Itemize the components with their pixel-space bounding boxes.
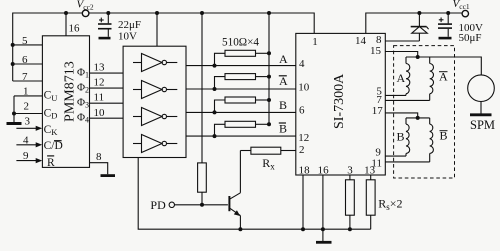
- label + C2: [439, 18, 444, 23]
- wire pin9 R input arrow: [16, 160, 37, 162]
- svg-text:22μF: 22μF: [118, 19, 141, 31]
- wire phi1 pin13: [90, 72, 124, 74]
- wire pin8 to zener: [385, 40, 419, 42]
- terminal PD: [169, 202, 174, 207]
- wire pin4 C/D input arrow: [16, 144, 37, 146]
- IC U2 buffer array box: [123, 46, 186, 157]
- svg-text:1: 1: [312, 36, 318, 48]
- svg-text:11: 11: [94, 92, 105, 104]
- wire bottom emitter rail: [138, 158, 371, 230]
- svg-text:SPM: SPM: [470, 118, 495, 132]
- svg-text:PMM8713: PMM8713: [62, 61, 77, 122]
- wire V1 rail to PD pull-up resistor: [201, 13, 203, 163]
- wire phase A line: [186, 65, 296, 67]
- wire pin16 down to ground: [322, 175, 324, 241]
- svg-text:3: 3: [25, 115, 31, 127]
- node dot pin5 bus: [11, 43, 15, 47]
- svg-text:4: 4: [299, 58, 305, 70]
- svg-text:18: 18: [299, 165, 311, 177]
- svg-text:6: 6: [22, 54, 28, 66]
- svg-text:9: 9: [23, 150, 29, 162]
- svg-text:16: 16: [318, 165, 330, 177]
- resistor R 510x4 #2: [213, 74, 270, 91]
- wire phi3 pin11: [90, 102, 124, 104]
- ground under C1: [99, 37, 111, 40]
- svg-text:16: 16: [69, 23, 81, 35]
- wire pin5 stub: [13, 44, 43, 46]
- wire pin3 CK input arrow: [16, 127, 37, 129]
- svg-text:1: 1: [23, 86, 29, 98]
- wire pin9 to winding B bottom: [385, 155, 406, 157]
- wire pin7 stub: [13, 80, 43, 82]
- svg-text:14: 14: [355, 35, 367, 47]
- svg-text:12: 12: [94, 77, 105, 89]
- winding Bbar: [430, 118, 434, 162]
- wire pin5 to winding A bottom: [385, 94, 406, 96]
- svg-text:C/D: C/D: [44, 140, 63, 152]
- svg-text:PD: PD: [150, 198, 166, 212]
- wire pin2 CD with ground drop: [13, 96, 15, 122]
- svg-text:B: B: [279, 122, 287, 136]
- wire top rail middle segment to pin1: [89, 13, 314, 33]
- svg-text:510Ω×4: 510Ω×4: [222, 36, 259, 48]
- wire pin1 CU: [14, 95, 42, 97]
- svg-text:10: 10: [298, 81, 310, 93]
- svg-text:13: 13: [94, 62, 106, 74]
- svg-text:7: 7: [22, 71, 28, 83]
- ground pin8: [101, 174, 116, 177]
- svg-text:12: 12: [298, 132, 309, 144]
- wire phase Abar line: [186, 88, 296, 90]
- wire pin7 to winding Abar bottom: [385, 99, 429, 101]
- transistor Q1: [229, 151, 240, 230]
- svg-text:A: A: [397, 71, 406, 85]
- node dot emitter rail: [238, 227, 242, 231]
- IC U1 PMM8713 box: [42, 36, 89, 168]
- svg-text:Vcc2: Vcc2: [77, 0, 94, 11]
- wire pin17 to B windings tee: [385, 113, 417, 118]
- wire pin15 to A windings tee: [385, 52, 417, 58]
- ground left of PMM8713: [7, 122, 22, 125]
- node dot PD pull-up junction: [200, 203, 204, 207]
- wire buffer box power to rail: [156, 13, 158, 46]
- resistor Rs #2 pin13: [366, 175, 375, 229]
- svg-text:B: B: [397, 130, 405, 144]
- terminal Vcc1: [462, 10, 468, 16]
- svg-text:50μF: 50μF: [459, 32, 482, 44]
- svg-text:Rs×2: Rs×2: [378, 197, 402, 213]
- wire pin18 down: [302, 175, 304, 229]
- node dot pin6 bus: [11, 62, 15, 66]
- winding A: [406, 57, 410, 95]
- IC U3 SI-7300A box: [296, 33, 386, 175]
- wire pin11 to winding Bbar bottom: [385, 161, 429, 163]
- wire pin6 stub: [13, 63, 43, 65]
- dashed motor winding box: [394, 46, 455, 178]
- diode zener VD1: [411, 13, 429, 41]
- svg-text:8: 8: [96, 151, 102, 163]
- capacitor C1 22uF lead: [107, 13, 109, 23]
- wire B tee: [406, 117, 430, 119]
- resistor R 510x4 #3: [213, 97, 270, 114]
- wire phase B line: [186, 111, 296, 113]
- svg-text:15: 15: [370, 45, 382, 57]
- svg-text:R: R: [47, 157, 55, 169]
- resistor Rx: [240, 147, 295, 154]
- wire A tee to SPM: [406, 57, 481, 75]
- inverter gate 1: [133, 54, 177, 72]
- ground main: [316, 241, 332, 244]
- wire top Vcc2 rail left segment: [13, 13, 82, 81]
- wire pin16 PMM8713 to rail: [65, 13, 67, 36]
- svg-text:6: 6: [299, 104, 305, 116]
- resistor R 510x4 #1: [213, 50, 270, 67]
- wire phi2 pin12: [90, 87, 124, 89]
- capacitor C1 plates: [98, 23, 112, 25]
- svg-text:A: A: [279, 52, 288, 66]
- node dot pin2: [12, 112, 16, 116]
- svg-text:10V: 10V: [118, 31, 137, 43]
- svg-text:13: 13: [364, 165, 376, 177]
- node junction dots on rails: [64, 11, 450, 15]
- wire V2 rail to 510 ohm commons: [268, 13, 270, 124]
- winding Abar: [430, 57, 434, 100]
- wire PD to transistor base: [175, 204, 228, 206]
- wire pin8 PMM8713 to ground: [90, 163, 108, 175]
- winding B: [406, 118, 410, 156]
- terminal Vcc2: [82, 10, 89, 17]
- wire phi4 pin10: [90, 117, 124, 119]
- svg-text:10: 10: [94, 107, 106, 119]
- svg-text:3: 3: [347, 165, 353, 177]
- capacitor C2 50uF: [438, 13, 452, 38]
- svg-text:4: 4: [23, 134, 29, 146]
- inverter gate 3: [133, 108, 177, 126]
- resistor Rs #1 pin3: [346, 175, 355, 231]
- inverter gate 2: [133, 81, 177, 99]
- wire phase Bbar line: [186, 135, 296, 137]
- resistor pull-up PD body: [198, 163, 207, 192]
- label + C1: [99, 18, 104, 23]
- svg-text:2: 2: [299, 144, 305, 156]
- svg-text:5: 5: [22, 35, 28, 47]
- resistor R 510x4 #4: [213, 121, 270, 138]
- motor SPM: [468, 75, 495, 115]
- svg-text:B: B: [279, 98, 287, 112]
- svg-text:2: 2: [24, 101, 30, 113]
- svg-text:17: 17: [372, 105, 384, 117]
- inverter gate 4: [133, 135, 177, 153]
- wire top Vcc1 rail segment from pin14: [366, 13, 462, 33]
- svg-text:SI-7300A: SI-7300A: [332, 73, 347, 129]
- svg-text:Vcc1: Vcc1: [453, 0, 470, 11]
